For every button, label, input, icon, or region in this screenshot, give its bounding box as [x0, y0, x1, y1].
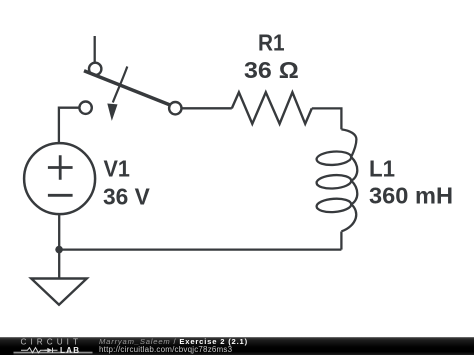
voltage source V1 — [24, 143, 95, 214]
resistor R1 — [232, 92, 312, 124]
switch blade — [84, 71, 170, 105]
svg-text:LAB: LAB — [60, 346, 80, 355]
wire L1 to bottom net — [340, 232, 342, 250]
svg-text:V1: V1 — [104, 156, 131, 182]
svg-text:http://circuitlab.com/cbvqjc78: http://circuitlab.com/cbvqjc78z6ms3 — [99, 345, 233, 354]
wire R1 to L1 — [312, 108, 342, 129]
inductor L1 — [317, 129, 358, 231]
switch throw terminal circle (top) — [89, 63, 101, 75]
svg-text:36 V: 36 V — [103, 184, 150, 210]
footer — [0, 337, 474, 355]
wire switch to R1 — [182, 107, 232, 109]
wire from switch left terminal to V1 — [59, 108, 80, 143]
wire switch top stub — [94, 36, 96, 62]
svg-text:36 Ω: 36 Ω — [244, 57, 299, 83]
switch throw terminal circle (left) — [79, 102, 91, 114]
svg-text:R1: R1 — [258, 30, 285, 56]
wire bottom net — [59, 248, 341, 250]
junction node — [55, 246, 63, 254]
ground — [31, 279, 87, 305]
svg-text:360 mH: 360 mH — [369, 183, 453, 209]
wire V1 to ground node — [58, 214, 60, 278]
switch common terminal circle (right) — [169, 102, 181, 114]
switch actuation arrow — [108, 67, 127, 119]
svg-text:L1: L1 — [369, 156, 395, 182]
